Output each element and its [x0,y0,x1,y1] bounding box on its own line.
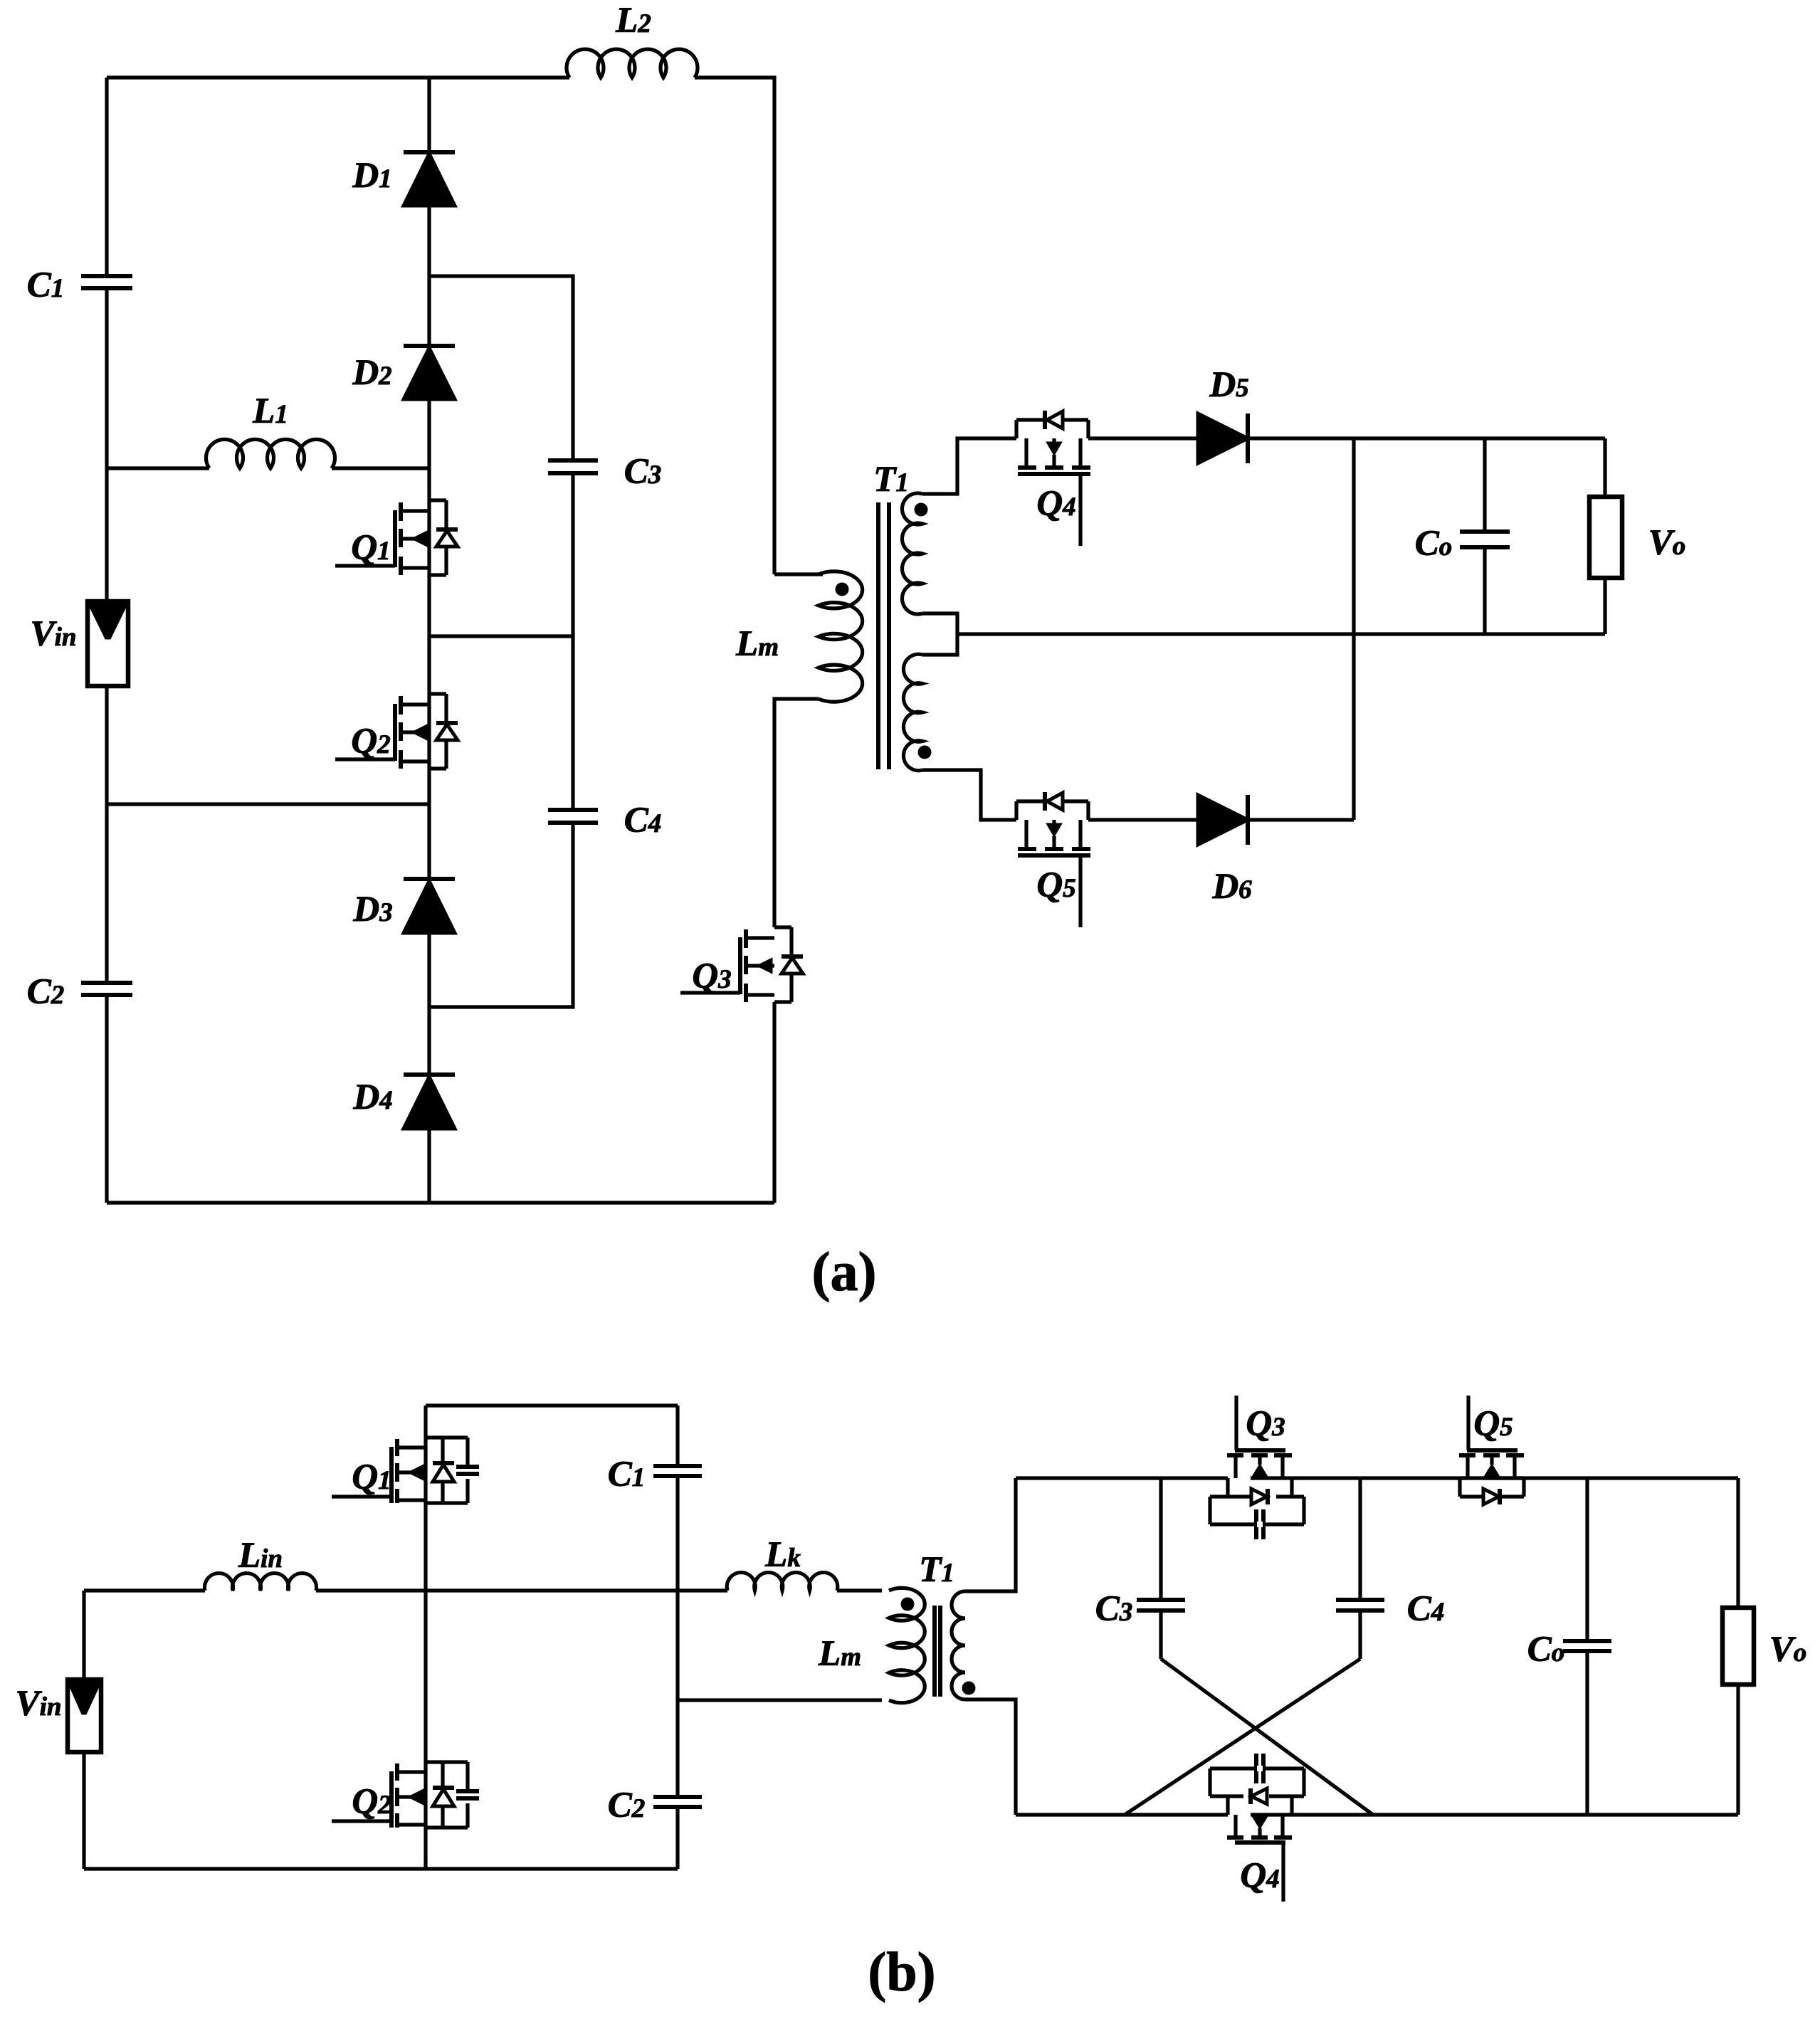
polarity dot secondary top [915,503,928,517]
svg-text:(b): (b) [868,1941,935,2003]
wire: Vo to mid rail [1603,578,1606,634]
wire: secondary bottom lead to bottom rail (b) [965,1699,1016,1815]
transistor Q5 (MOSFET, secondary bottom) [1014,801,1018,820]
wire: C4 to diagonal [1358,1611,1362,1659]
polarity dot secondary bottom [918,746,932,759]
wire: secondary top lead to top rail (b) [965,1478,1016,1591]
transistor Q1 (MOSFET with capacitor) [426,1435,468,1439]
wire: output capacitor branch [1483,438,1486,532]
wire: C4 branch (b) [1358,1478,1362,1600]
wire: Lm bottom lead [774,699,819,927]
transformer secondary upper winding [902,493,922,614]
wire: Q3 source to bottom rail corner [772,1002,776,1203]
transistor Q4 (b) [1227,1835,1243,1840]
wire: diagonal from C4 to bottom left [1125,1659,1360,1815]
wire: output right branch [1603,438,1606,497]
wire: secondary bottom lead to Q5 [922,770,1016,820]
wire: Co bottom (b) [1585,1651,1589,1815]
wire: top rail from L2 to right branch corner [695,78,774,574]
wire: right branch (b) [1736,1478,1740,1608]
transistor Q2 (MOSFET with capacitor) [426,1760,468,1764]
wire: Q5 rail restore [1460,1476,1469,1480]
inductor L1 [206,439,335,468]
wire: center rail D1 to D2, node to C3 [427,206,431,348]
diode D1 [404,150,455,154]
transformer primary winding Lm (b) [889,1588,925,1703]
wire: center rail Q2 source to D3 [427,694,431,881]
polarity dot secondary (b) [962,1682,976,1695]
wire: left rail C1 to Vin [105,288,108,601]
wire: center tap stubs [922,613,957,655]
wire: C2 to bottom rail [675,1807,679,1869]
capacitor C4 [548,808,598,812]
wire: left rail C2 to bottom rail [105,995,108,1203]
wire: right rail top, down to Lm top lead [774,572,823,576]
diode D3 [404,877,455,881]
diode D5 [1198,413,1248,463]
voltage source Vin (b) [68,1680,101,1752]
wire: Q5 to D6 [1088,818,1198,821]
capacitor C2 on left rail [81,981,132,985]
load resistor Vo [1589,497,1622,578]
transformer T1 core (b) [932,1606,937,1697]
inductor L2 on top rail [567,49,698,78]
wire: bottom rail [107,1201,774,1204]
transformer secondary lower winding [903,654,922,770]
wire: left rail of (b) bottom [82,1752,85,1869]
transistor Q2 (MOSFET) [429,692,446,695]
wire: Vo bottom (b) [1736,1685,1740,1815]
capacitor C1 (b) [653,1464,702,1468]
wire: switch leg bottom [424,1762,427,1869]
wire: input left from Vin to Lin [84,1588,205,1592]
capacitor C4 (b) [1336,1598,1384,1602]
wire: switch leg middle [424,1438,427,1762]
transistor Q1 (MOSFET) [429,498,446,502]
wire: C3 branch top tee [429,276,573,460]
wire: diagonal from C3 to bottom right [1161,1659,1373,1815]
wire: C3 branch (b) [1159,1478,1162,1600]
wire: vertical junction D5/D6 cathodes [1352,438,1355,820]
wire: center rail Q1 source to Q2 drain [427,500,431,694]
wire: left rail Vin to C2 [105,686,108,983]
inductor Lk [727,1573,838,1591]
svg-text:(a): (a) [812,1240,877,1302]
capacitor C2 (b) [653,1795,702,1799]
transistor Q3 (b) [1227,1453,1243,1457]
wire: left rail top section (top rail to C1) [105,78,108,276]
polarity dot primary (b) [901,1598,915,1611]
wire: center rail from top rail to D1 [427,78,431,154]
wire: switch leg top [424,1406,427,1438]
wire: L1 to center rail [332,466,429,470]
wire: bottom rail of (b) left part [84,1867,678,1870]
wire: Co bottom [1483,547,1486,634]
wire: center rail D4 to bottom rail [427,1129,431,1203]
wire: Q4 to D5 [1088,436,1198,440]
capacitor C3 (b) [1137,1598,1185,1602]
wire: D5 to output top corner [1248,436,1605,440]
wire: primary return to C1C2 branch [678,1698,882,1702]
wire: Lin to Lk [316,1588,727,1592]
diode D2 [404,344,455,348]
wire: bottom rail (b) right part [1016,1813,1228,1816]
inductor Lin [205,1573,317,1591]
inductor Lm (transformer primary winding) [819,571,863,702]
wire: center tap rail to output [957,632,1605,636]
wire: top rail from C1 branch to L2 [107,75,569,79]
wire: output capacitor branch (b) [1585,1478,1589,1641]
wire: Lk to transformer primary [837,1588,882,1592]
transistor Q5 (b) [1459,1453,1476,1457]
voltage source Vin [88,601,128,686]
transformer secondary winding (b) [952,1591,965,1699]
wire: C4 branch from mid tee [571,636,574,810]
wire: C3 to diagonal [1159,1611,1162,1659]
diode D6 [1198,795,1248,845]
wire: C4 bottom tee to center rail [429,823,573,1007]
wire: junction from left rail to center rail below Q2 [107,802,429,806]
capacitor C3 [548,458,598,463]
wire: C1C2 branch top [675,1406,679,1466]
capacitor Co [1460,529,1510,534]
polarity dot of Lm [836,583,849,596]
wire: C3 bottom to mid tee [429,473,573,636]
wire: L1 from left rail to center rail [107,466,209,470]
wire: secondary top lead to Q4 [922,438,1016,494]
capacitor C1 on left rail [81,274,132,278]
capacitor Co (b) [1563,1639,1611,1643]
diode D4 [404,1072,455,1077]
transformer T1 core [876,502,880,769]
wire: center rail D3 to D4 [427,933,431,1077]
wire: top rail left section [426,1403,678,1407]
load resistor Vo (b) [1722,1608,1754,1685]
wire: C1 to C2 [675,1476,679,1797]
wire: left rail of (b) top [82,1591,85,1680]
transistor Q4 (MOSFET, secondary top) [1014,420,1018,438]
wire: center rail D2 to Q1 drain [427,399,431,500]
transistor Q3 (MOSFET) [774,925,791,929]
wire: D6 to junction [1248,818,1354,821]
wire: top rail (b) right part [1016,1476,1228,1480]
